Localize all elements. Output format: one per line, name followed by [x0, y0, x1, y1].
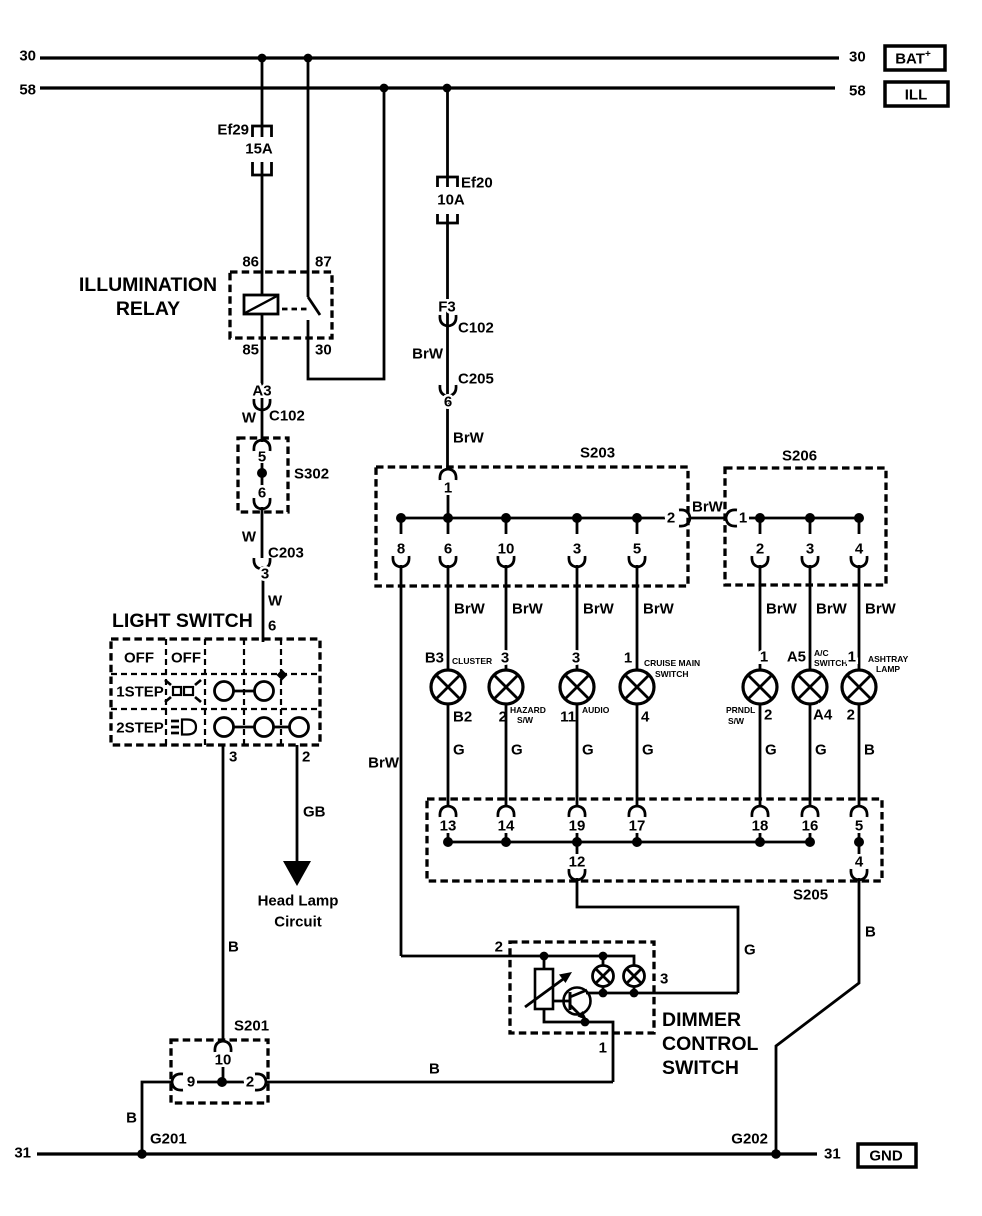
wire S203-5 to cruise lamp — [637, 565, 675, 670]
svg-text:CRUISE MAIN: CRUISE MAIN — [644, 658, 700, 668]
svg-text:1: 1 — [848, 649, 856, 666]
pin 6 S203 — [440, 518, 456, 567]
svg-text:2: 2 — [764, 707, 772, 724]
wire S201-2 to dimmer 1 — [266, 1061, 613, 1083]
svg-text:B: B — [228, 939, 239, 956]
wire cluster lamp to S205-13 G — [448, 704, 465, 808]
svg-text:G: G — [582, 742, 594, 759]
wire rail58 to fuse Ef20 — [446, 88, 449, 187]
svg-text:S302: S302 — [294, 466, 329, 483]
dimmer lower bus to pin 3 — [586, 971, 738, 998]
svg-text:S/W: S/W — [728, 716, 745, 726]
svg-text:BrW: BrW — [766, 601, 798, 618]
lamp hazard switch — [489, 650, 546, 726]
connector S206 — [725, 448, 886, 586]
svg-text:B: B — [126, 1110, 137, 1127]
svg-text:58: 58 — [849, 83, 866, 100]
svg-text:5: 5 — [633, 541, 641, 558]
svg-text:G: G — [511, 742, 523, 759]
svg-text:C203: C203 — [268, 545, 304, 562]
svg-text:G: G — [765, 742, 777, 759]
svg-text:8: 8 — [397, 541, 405, 558]
svg-text:3: 3 — [261, 566, 269, 583]
svg-text:2: 2 — [246, 1074, 254, 1091]
wire C203 to light switch 6 — [262, 566, 265, 642]
svg-text:SWITCH: SWITCH — [655, 669, 689, 679]
svg-text:BrW: BrW — [368, 755, 400, 772]
dimmer lamp 2 — [624, 966, 645, 994]
svg-text:S/W: S/W — [517, 715, 534, 725]
wire light switch terminal 3 — [223, 745, 239, 1042]
svg-text:BrW: BrW — [816, 601, 848, 618]
wire prndl lamp to S205-18 G — [760, 704, 777, 808]
svg-text:Ef29: Ef29 — [217, 122, 249, 139]
junction diamond light switch — [277, 670, 288, 681]
connector S205 — [427, 799, 882, 904]
illumination relay U1 — [79, 254, 332, 359]
svg-text:S203: S203 — [580, 445, 615, 462]
transistor Q1 — [553, 988, 591, 1021]
svg-text:A4: A4 — [813, 707, 833, 724]
pin 10 S203 — [498, 518, 515, 567]
svg-text:10: 10 — [498, 541, 515, 558]
svg-text:3: 3 — [229, 749, 237, 766]
svg-text:4: 4 — [855, 854, 864, 871]
svg-text:BrW: BrW — [865, 601, 897, 618]
junction S205-18 — [755, 837, 765, 847]
svg-text:1: 1 — [739, 510, 747, 527]
svg-text:SWITCH: SWITCH — [814, 658, 848, 668]
svg-text:PRNDL: PRNDL — [726, 705, 755, 715]
svg-text:1: 1 — [760, 649, 768, 666]
svg-text:G202: G202 — [731, 1131, 768, 1148]
svg-text:3: 3 — [660, 971, 668, 988]
arrow head lamp circuit — [258, 861, 339, 931]
junction S205-19 — [572, 837, 582, 847]
svg-text:18: 18 — [752, 818, 769, 835]
svg-text:31: 31 — [14, 1145, 31, 1162]
svg-text:BrW: BrW — [412, 346, 444, 363]
svg-text:11: 11 — [560, 709, 576, 726]
wire relay 30 to rail58 — [308, 88, 384, 379]
bus S203 — [401, 517, 665, 520]
wire S203-10 to hazard lamp — [506, 565, 544, 670]
ground G202 — [731, 1131, 781, 1159]
wire light switch terminal 2 GB — [297, 745, 326, 862]
dimmer top bus — [510, 952, 634, 966]
svg-text:Circuit: Circuit — [274, 914, 322, 931]
splice 2 to 1 BrW link — [667, 499, 747, 527]
svg-text:1: 1 — [624, 650, 632, 667]
svg-text:30: 30 — [19, 48, 36, 65]
svg-text:6: 6 — [258, 485, 266, 502]
wire S203-6 to cluster lamp — [448, 565, 486, 670]
net 58 rail — [19, 82, 865, 100]
lamp audio — [560, 650, 610, 726]
svg-text:W: W — [242, 529, 257, 546]
svg-text:C102: C102 — [269, 408, 305, 425]
pin 3 S203 — [569, 518, 585, 567]
ground G201 — [137, 1131, 187, 1159]
svg-text:BAT+: BAT+ — [895, 49, 931, 68]
svg-text:12: 12 — [569, 854, 586, 871]
svg-text:ILL: ILL — [905, 87, 928, 104]
bus S205 — [448, 841, 810, 844]
wire relay 85 down — [261, 314, 264, 442]
svg-text:2STEP: 2STEP — [116, 720, 164, 737]
svg-text:C102: C102 — [458, 320, 494, 337]
wire cruise lamp to S205-17 G — [637, 704, 654, 808]
junction S203 pin3 — [572, 513, 582, 523]
junction S206 pin2 — [755, 513, 765, 523]
svg-text:S206: S206 — [782, 448, 817, 465]
junction S205-17 — [632, 837, 642, 847]
svg-text:ASHTRAY: ASHTRAY — [868, 654, 909, 664]
connector S203 — [376, 445, 688, 587]
rheostat dimmer — [525, 956, 572, 1009]
junction S203 pin8 — [396, 513, 406, 523]
svg-text:58: 58 — [19, 82, 36, 99]
svg-text:GND: GND — [869, 1148, 903, 1165]
fuse Ef20 10A — [437, 175, 492, 224]
wire hazard lamp to S205-14 G — [506, 704, 523, 808]
svg-text:G201: G201 — [150, 1131, 187, 1148]
wire S206-4 to ashtray lamp — [859, 565, 897, 670]
ILL terminal box — [885, 82, 948, 106]
svg-text:14: 14 — [498, 818, 515, 835]
svg-text:31: 31 — [824, 1146, 841, 1163]
svg-text:2: 2 — [756, 541, 764, 558]
svg-text:G: G — [453, 742, 465, 759]
svg-text:5: 5 — [258, 449, 266, 466]
pin 5 S205 — [851, 806, 867, 842]
svg-text:B: B — [429, 1061, 440, 1078]
fuse Ef29 15A — [217, 122, 273, 176]
wire audio lamp to S205-19 G — [577, 704, 594, 808]
wire S302-6 to C203 — [261, 507, 264, 558]
wire S205-12 to dimmer 3 G — [577, 878, 756, 993]
wire ashtray lamp to S205-5 B — [859, 704, 875, 808]
svg-text:SWITCH: SWITCH — [662, 1057, 739, 1079]
junction S205-13 — [443, 837, 453, 847]
switch contact row 2STEP — [215, 718, 309, 737]
svg-text:1: 1 — [444, 480, 452, 497]
svg-text:1: 1 — [599, 1040, 607, 1057]
junction rail30/relay87 — [304, 54, 313, 63]
svg-text:OFF: OFF — [171, 650, 201, 667]
pin 14 S205 — [498, 806, 515, 842]
headlamp icon — [171, 720, 196, 735]
svg-text:3: 3 — [572, 650, 580, 667]
pin 4 S205 — [851, 854, 867, 881]
svg-text:BrW: BrW — [453, 430, 485, 447]
pin 2 S206 — [752, 518, 768, 567]
svg-text:BrW: BrW — [643, 601, 675, 618]
dimmer lamp 1 — [593, 956, 614, 993]
dimmer bottom wire pin 1 — [544, 1009, 613, 1082]
pin 18 S205 — [752, 806, 769, 842]
svg-text:F3: F3 — [438, 299, 456, 316]
junction S203 pin5 — [632, 513, 642, 523]
lamp ashtray — [842, 649, 909, 724]
svg-text:LIGHT SWITCH: LIGHT SWITCH — [112, 610, 253, 632]
pin 13 S205 — [440, 806, 457, 842]
svg-text:S205: S205 — [793, 887, 828, 904]
dimmer control switch — [510, 942, 758, 1079]
connector C205 — [440, 371, 494, 447]
svg-text:A3: A3 — [252, 383, 271, 400]
light switch SW1 — [111, 610, 320, 745]
svg-text:G: G — [815, 742, 827, 759]
svg-text:2: 2 — [495, 939, 503, 956]
pin 12 S205 — [569, 842, 586, 880]
parking lamp icon — [165, 680, 201, 702]
svg-text:B: B — [864, 742, 875, 759]
svg-text:2: 2 — [302, 749, 310, 766]
svg-text:6: 6 — [444, 394, 452, 411]
svg-text:6: 6 — [444, 541, 452, 558]
svg-text:G: G — [744, 942, 756, 959]
junction rail58/Ef20 — [443, 84, 452, 93]
svg-text:OFF: OFF — [124, 650, 154, 667]
junction S206 pin4 — [854, 513, 864, 523]
svg-text:RELAY: RELAY — [116, 298, 180, 320]
svg-text:4: 4 — [641, 709, 650, 726]
pin 3 S206 — [802, 518, 818, 567]
svg-text:10: 10 — [215, 1052, 232, 1069]
svg-text:B2: B2 — [453, 709, 472, 726]
svg-text:4: 4 — [855, 541, 864, 558]
svg-text:ILLUMINATION: ILLUMINATION — [79, 274, 217, 296]
svg-text:86: 86 — [242, 254, 259, 271]
connector C203 — [242, 529, 304, 583]
pin 4 S206 — [851, 518, 867, 567]
svg-text:5: 5 — [855, 818, 863, 835]
svg-text:3: 3 — [573, 541, 581, 558]
svg-text:30: 30 — [849, 49, 866, 66]
svg-text:GB: GB — [303, 804, 326, 821]
svg-text:A5: A5 — [787, 649, 806, 666]
svg-text:1STEP: 1STEP — [116, 684, 164, 701]
bus S206 — [749, 517, 859, 520]
svg-text:15A: 15A — [245, 141, 273, 158]
connector F3 C102 — [412, 299, 494, 363]
switch contact row 1STEP — [215, 682, 274, 701]
net 30 rail — [19, 48, 865, 66]
wire S201-9 to G201 — [126, 1082, 172, 1154]
svg-text:DIMMER: DIMMER — [662, 1009, 741, 1031]
svg-text:30: 30 — [315, 342, 332, 359]
junction S205-16 — [805, 837, 815, 847]
splice S302 — [238, 438, 329, 512]
svg-text:10A: 10A — [437, 192, 465, 209]
svg-text:CONTROL: CONTROL — [662, 1033, 758, 1055]
svg-text:G: G — [642, 742, 654, 759]
wire S206-2 to prndl lamp — [760, 565, 798, 670]
svg-text:13: 13 — [440, 818, 457, 835]
wire fuse Ef20 to F3 — [446, 214, 449, 470]
wire ac lamp to S205-16 G — [810, 704, 827, 808]
wire rail30 to fuse Ef29 — [261, 58, 264, 137]
svg-text:16: 16 — [802, 818, 819, 835]
lamp cruise main switch — [620, 650, 700, 726]
GND terminal box — [858, 1144, 916, 1167]
junction rail58/relay30 — [380, 84, 389, 93]
wire S206-3 to ac lamp — [810, 565, 848, 670]
junction S206 pin3 — [805, 513, 815, 523]
svg-text:3: 3 — [501, 650, 509, 667]
connector A3 C102 — [242, 383, 305, 427]
wire rail30 to relay 87 — [307, 58, 310, 297]
wire fuse Ef29 to relay coil 86 — [261, 162, 264, 295]
pin 8 S203 — [393, 518, 409, 567]
svg-text:Ef20: Ef20 — [461, 175, 493, 192]
junction S205-5/4 — [854, 837, 864, 854]
lamp ac switch — [787, 648, 848, 724]
BAT+ terminal box — [885, 46, 945, 70]
lamp prndl switch — [726, 649, 777, 727]
svg-text:S201: S201 — [234, 1018, 269, 1035]
svg-text:85: 85 — [242, 342, 259, 359]
svg-text:Head Lamp: Head Lamp — [258, 893, 339, 910]
junction rail30/Ef29 — [258, 54, 267, 63]
svg-text:17: 17 — [629, 818, 646, 835]
svg-text:W: W — [268, 593, 283, 610]
svg-text:19: 19 — [569, 818, 586, 835]
net 31 rail — [14, 1145, 840, 1163]
svg-text:C205: C205 — [458, 371, 494, 388]
svg-text:2: 2 — [667, 510, 675, 527]
junction S203 pin10 — [501, 513, 511, 523]
svg-text:BrW: BrW — [512, 601, 544, 618]
splice S201 — [171, 1018, 269, 1104]
wire S205-4 to G202 B — [776, 878, 876, 1154]
svg-text:9: 9 — [187, 1074, 195, 1091]
svg-text:HAZARD: HAZARD — [510, 705, 546, 715]
svg-text:BrW: BrW — [692, 499, 724, 516]
svg-text:LAMP: LAMP — [876, 664, 900, 674]
pin 17 S205 — [629, 806, 646, 842]
svg-text:B3: B3 — [425, 650, 444, 667]
svg-text:AUDIO: AUDIO — [582, 705, 610, 715]
pin 19 S205 — [569, 806, 586, 842]
lamp cluster B3 — [425, 650, 492, 726]
svg-text:A/C: A/C — [814, 648, 829, 658]
svg-text:87: 87 — [315, 254, 332, 271]
pin 5 S203 — [629, 518, 645, 567]
svg-text:2: 2 — [847, 707, 855, 724]
svg-text:CLUSTER: CLUSTER — [452, 656, 492, 666]
svg-text:3: 3 — [806, 541, 814, 558]
svg-text:B: B — [865, 924, 876, 941]
svg-text:W: W — [242, 410, 257, 427]
svg-text:BrW: BrW — [583, 601, 615, 618]
junction S205-14 — [501, 837, 511, 847]
pin 1 S203 — [440, 469, 456, 518]
pin 16 S205 — [802, 806, 819, 842]
wire S203-8 to dimmer 2 BrW — [368, 565, 510, 956]
junction S203 pin6 — [443, 513, 453, 523]
svg-text:BrW: BrW — [454, 601, 486, 618]
wire S203-3 to audio lamp — [577, 565, 615, 670]
svg-text:6: 6 — [268, 618, 276, 635]
